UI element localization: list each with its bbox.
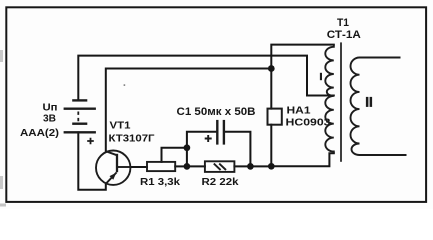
junction node C1-right/R2 — [247, 163, 254, 170]
battery GB1 (Uп 3В АAA(2)) — [64, 100, 96, 144]
transistor VT1 — [96, 151, 131, 185]
transformer T1 secondary winding II — [351, 58, 407, 156]
svg-text:Uп: Uп — [43, 103, 58, 114]
svg-text:3В: 3В — [43, 113, 56, 124]
junction node R1/R2 wire — [184, 163, 191, 170]
svg-text:C1 50мк x 50В: C1 50мк x 50В — [177, 106, 256, 118]
scan smudge left upper — [0, 50, 3, 62]
junction node collector/HA1 — [268, 65, 275, 72]
junction node C1-left/R1 — [184, 144, 191, 151]
resistor R2 — [205, 161, 235, 172]
wire battery-minus to emitter — [78, 132, 106, 189]
svg-text:R1 3,3k: R1 3,3k — [140, 176, 180, 188]
wire base to R1 — [131, 166, 148, 168]
scan smudge left lower — [0, 176, 3, 189]
svg-text:КТ3107Г: КТ3107Г — [109, 133, 155, 145]
junction node HA1-bottom — [268, 163, 275, 170]
svg-text:НС0903: НС0903 — [286, 117, 331, 129]
svg-text:T1: T1 — [337, 17, 349, 29]
capacitor C1 — [205, 120, 224, 145]
sounder HA1 — [268, 109, 282, 125]
svg-text:VT1: VT1 — [110, 120, 131, 132]
scan speck — [124, 84, 126, 86]
wire R2 right to bottom node — [234, 165, 271, 167]
wire collector to node A — [106, 69, 271, 152]
svg-text:R2 22k: R2 22k — [202, 176, 239, 188]
wire HA1 bottom — [270, 125, 272, 167]
wire node to R2 left — [187, 165, 205, 167]
svg-text:ААА(2): ААА(2) — [20, 128, 59, 139]
wire bottom node to primary bottom — [271, 153, 334, 166]
scan smudge bottom left — [0, 204, 6, 207]
label winding II — [366, 97, 369, 107]
label winding I — [320, 73, 322, 80]
wire C1 left lead to node — [187, 132, 217, 167]
wire battery-plus to transformer tap — [78, 56, 333, 100]
emitter arrow (PNP) — [110, 173, 117, 180]
wire R1 right lead — [175, 165, 187, 167]
R2 power slashes — [214, 164, 226, 170]
resistor R1 — [147, 162, 175, 171]
transformer core — [340, 42, 342, 161]
border frame — [6, 7, 426, 202]
svg-text:HA1: HA1 — [287, 104, 311, 116]
wire R1 top stub jumper — [162, 148, 187, 162]
svg-text:СТ-1А: СТ-1А — [327, 29, 361, 41]
wire C1 right lead down — [225, 132, 250, 167]
transformer T1 primary winding I — [325, 45, 334, 154]
wire node A vertical (collector / HA1 top / primary top) — [271, 45, 334, 109]
